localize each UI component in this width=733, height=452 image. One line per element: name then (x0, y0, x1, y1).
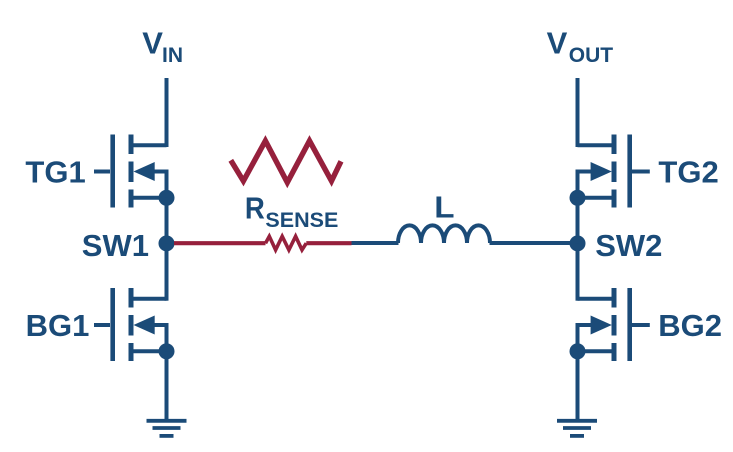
drain stub (578, 297, 615, 301)
wire VOUT to Q2 drain (576, 78, 580, 147)
svg-text:V: V (547, 26, 568, 61)
body arrow (134, 316, 155, 335)
transistor BG1 (94, 288, 167, 361)
source stub (578, 196, 615, 200)
resistor RSENSE zigzag (266, 236, 307, 250)
junction dot BG1 source-body (159, 343, 175, 359)
junction dot BG2 source-body (570, 343, 586, 359)
gate lead (632, 323, 650, 327)
ground left (147, 421, 187, 436)
gate bar (110, 288, 115, 361)
channel segments (612, 135, 617, 208)
body line to source (578, 172, 593, 198)
drain stub (578, 143, 615, 147)
svg-text:V: V (142, 26, 163, 61)
wire inductor to SW2 (blue) (490, 241, 573, 245)
svg-text:BG1: BG1 (26, 308, 90, 343)
gate lead (632, 170, 650, 174)
svg-text:IN: IN (162, 44, 183, 67)
svg-text:SW2: SW2 (595, 228, 662, 263)
wire SW1 to RSENSE (red) (174, 241, 266, 245)
gate bar (627, 135, 632, 208)
wire TG2 source to SW2 (576, 198, 580, 244)
source stub (131, 196, 167, 200)
channel segments (612, 288, 617, 361)
body arrow (591, 316, 612, 335)
source stub (578, 349, 615, 353)
wire TG1 source to SW1 (165, 198, 169, 244)
svg-text:TG1: TG1 (25, 154, 85, 189)
transistor BG2 (mirrored) (578, 288, 650, 361)
svg-text:TG2: TG2 (658, 154, 718, 189)
gate bar (627, 288, 632, 361)
body line to source (152, 325, 167, 351)
svg-text:SW1: SW1 (82, 228, 149, 263)
wire node to inductor (blue) (352, 241, 399, 245)
transistor TG1 (94, 135, 167, 208)
svg-text:SENSE: SENSE (265, 208, 338, 232)
wire VIN to Q1 drain (165, 78, 169, 147)
svg-text:OUT: OUT (569, 44, 614, 67)
channel segments (129, 288, 134, 361)
node SW2 dot (570, 235, 586, 251)
gate lead (94, 323, 110, 327)
body line to source (152, 172, 167, 198)
node VOUT label (547, 26, 614, 67)
label RSENSE (245, 191, 338, 232)
node SW1 dot (159, 235, 175, 251)
svg-text:R: R (245, 191, 265, 226)
wire SW1 to BG1 drain (165, 243, 169, 300)
body arrow (591, 162, 612, 181)
wire BG2 source to ground (576, 351, 580, 421)
drain stub (131, 297, 167, 301)
channel segments (129, 135, 134, 208)
gate lead (94, 170, 110, 174)
drain stub (131, 143, 167, 147)
svg-text:BG2: BG2 (658, 308, 722, 343)
node VIN label (142, 26, 183, 67)
wire SW2 to BG2 drain (576, 243, 580, 300)
transistor TG2 (mirrored) (578, 135, 650, 208)
wire BG1 source to ground (165, 351, 169, 421)
junction dot TG1 source-body (159, 190, 175, 206)
ground right (557, 421, 597, 436)
junction dot TG2 source-body (570, 190, 586, 206)
body arrow (134, 162, 155, 181)
gate bar (110, 135, 115, 208)
inductor L (398, 225, 490, 243)
current ripple waveform (red triangle wave) (231, 141, 341, 183)
body line to source (578, 325, 593, 351)
svg-text:L: L (434, 190, 454, 225)
source stub (131, 349, 167, 353)
wire RSENSE to node (red) (306, 241, 351, 245)
